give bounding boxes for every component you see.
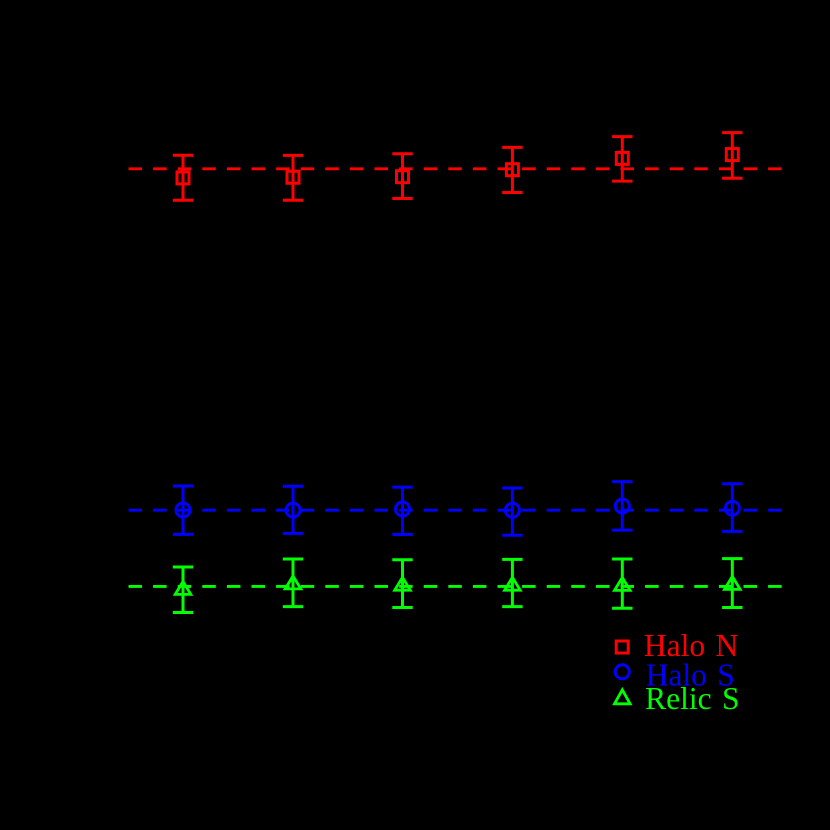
square marker 6 of Halo N series [726, 149, 738, 161]
square marker 2 of Halo N series [287, 171, 299, 183]
error bar 3 of Halo S series [392, 487, 412, 534]
triangle marker 1 of Relic S series [175, 582, 191, 595]
error bar 6 of Relic S series [722, 559, 742, 608]
square marker 5 of Halo N series [616, 152, 628, 164]
circle marker 2 of Halo S series [286, 503, 300, 517]
triangle marker 4 of Relic S series [505, 577, 521, 590]
circle marker 4 of Halo S series [505, 503, 519, 517]
square marker 3 of Halo N series [397, 171, 409, 183]
dashed mean line for Relic S series [129, 585, 783, 588]
error bar 4 of Relic S series [502, 559, 522, 606]
triangle marker 3 of Relic S series [395, 577, 411, 590]
error bar 5 of Halo S series [612, 482, 632, 530]
error bar 1 of Relic S series [173, 567, 193, 613]
error bar 5 of Halo N series [612, 137, 632, 182]
circle marker 1 of Halo S series [176, 503, 190, 517]
error bar 5 of Relic S series [612, 559, 632, 608]
dashed mean line for Halo S series [129, 509, 783, 512]
legend symbol: blue open circle (Halo S) [615, 665, 629, 679]
legend symbol: green open triangle (Relic S) [615, 690, 631, 704]
dashed mean line for Halo N series [129, 167, 783, 170]
square marker 4 of Halo N series [506, 164, 518, 176]
error bar 6 of Halo S series [722, 484, 742, 532]
error bar 4 of Halo N series [502, 147, 522, 192]
error bar 3 of Halo N series [392, 154, 412, 199]
error bar 2 of Halo N series [283, 155, 303, 200]
legend symbol: red open square (Halo N) [616, 641, 628, 653]
svg-text:Relic S: Relic S [645, 681, 739, 716]
error bar 3 of Relic S series [392, 560, 412, 608]
circle marker 5 of Halo S series [615, 499, 629, 513]
triangle marker 6 of Relic S series [725, 576, 741, 589]
error bar 4 of Halo S series [502, 488, 522, 535]
triangle marker 2 of Relic S series [285, 576, 301, 589]
error bar 6 of Halo N series [722, 133, 742, 179]
error bar 1 of Halo N series [173, 155, 193, 200]
error bar 1 of Halo S series [173, 486, 193, 534]
circle marker 6 of Halo S series [725, 501, 739, 515]
square marker 1 of Halo N series [177, 172, 189, 184]
error bar 2 of Relic S series [283, 559, 303, 607]
triangle marker 5 of Relic S series [615, 578, 631, 591]
error bar 2 of Halo S series [283, 486, 303, 533]
circle marker 3 of Halo S series [396, 502, 410, 516]
